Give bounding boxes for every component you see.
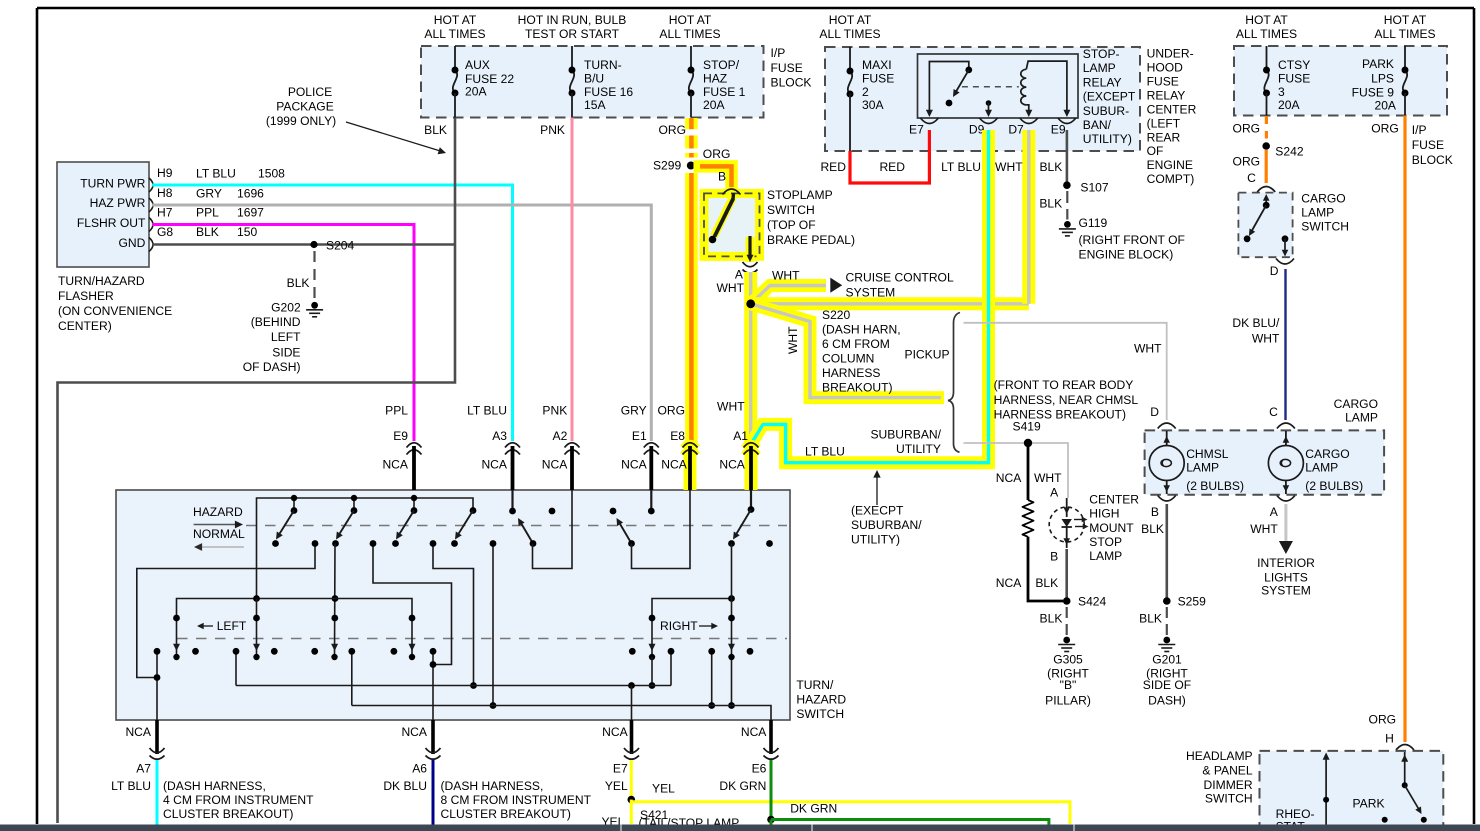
svg-text:PNK: PNK	[542, 404, 567, 418]
svg-text:LEFT: LEFT	[271, 330, 301, 344]
svg-text:NORMAL: NORMAL	[193, 527, 245, 541]
splice S107	[1063, 181, 1071, 189]
svg-text:B/U: B/U	[584, 72, 604, 86]
ground G202	[311, 302, 318, 309]
svg-text:LAMP: LAMP	[1301, 206, 1334, 220]
svg-text:A2: A2	[553, 429, 568, 443]
police package arrow	[346, 122, 442, 152]
svg-text:HOT AT: HOT AT	[1384, 13, 1427, 27]
svg-text:BLK: BLK	[196, 225, 219, 239]
svg-text:ORG: ORG	[657, 404, 685, 418]
svg-text:LT BLU: LT BLU	[111, 779, 151, 793]
svg-text:HAZARD: HAZARD	[796, 693, 846, 707]
svg-text:UTILITY): UTILITY)	[1083, 132, 1132, 146]
svg-text:NCA: NCA	[401, 725, 427, 739]
svg-text:(2 BULBS): (2 BULBS)	[1186, 479, 1244, 493]
svg-text:YEL: YEL	[652, 782, 675, 796]
svg-text:ORG: ORG	[658, 123, 686, 137]
rheostat arm	[1325, 754, 1327, 831]
svg-text:DK GRN: DK GRN	[790, 802, 837, 816]
svg-text:ALL TIMES: ALL TIMES	[819, 27, 880, 41]
wire LT BLU from flasher to A3	[152, 185, 513, 441]
hazard bank fixed contacts	[293, 498, 295, 511]
svg-text:(FRONT TO REAR BODY: (FRONT TO REAR BODY	[994, 378, 1134, 392]
contact 352 drop	[351, 651, 353, 705]
svg-text:C: C	[1247, 171, 1256, 185]
svg-text:GND: GND	[119, 236, 146, 250]
wire NCA black from S419 to resistor	[1027, 447, 1030, 500]
fixed dot right end	[766, 540, 773, 547]
svg-text:E6: E6	[752, 762, 767, 776]
svg-text:MAXI: MAXI	[862, 58, 892, 72]
svg-text:GRY: GRY	[196, 186, 222, 200]
relay STOP-LAMP outline	[918, 54, 1079, 118]
long rail y705 to E6	[352, 706, 771, 721]
svg-text:CARGO: CARGO	[1305, 447, 1349, 461]
svg-text:BLK: BLK	[1039, 196, 1062, 210]
svg-text:G201: G201	[1152, 653, 1182, 667]
svg-text:ALL TIMES: ALL TIMES	[1374, 27, 1435, 41]
dashed line turn bank	[177, 638, 787, 640]
blade A3 (up arrow)	[520, 521, 534, 544]
wire ORG ctsy fuse to S242 (dashed)	[1265, 116, 1268, 124]
svg-text:HEADLAMP: HEADLAMP	[1186, 749, 1253, 763]
svg-text:TURN/HAZARD: TURN/HAZARD	[58, 274, 145, 288]
wire BLK from AUX fuse down-left to bottom	[58, 118, 456, 824]
lamp CARGO	[1268, 446, 1303, 481]
cargo lamp switch box	[1238, 193, 1292, 258]
cargo lamp box	[1145, 430, 1385, 494]
svg-text:GRY: GRY	[621, 404, 647, 418]
splice S259	[1163, 597, 1171, 605]
svg-text:D: D	[1270, 264, 1279, 278]
svg-text:A: A	[1050, 486, 1059, 500]
wire YEL from E7	[630, 760, 633, 800]
svg-text:S259: S259	[1178, 594, 1207, 608]
wire BLK chmsl B to S259	[1166, 504, 1169, 601]
wire WHT thin brace to S419 to lamp A	[964, 443, 1069, 498]
svg-text:ENGINE BLOCK): ENGINE BLOCK)	[1079, 248, 1174, 262]
svg-text:UTILITY: UTILITY	[896, 442, 941, 456]
svg-text:ORG: ORG	[1233, 122, 1261, 136]
svg-text:(RIGHT FRONT OF: (RIGHT FRONT OF	[1079, 233, 1185, 247]
svg-text:A: A	[735, 268, 744, 282]
svg-text:H8: H8	[157, 186, 173, 200]
svg-text:CENTER: CENTER	[1147, 102, 1197, 116]
wire E8 into switch with link	[632, 490, 691, 569]
svg-text:ORG: ORG	[1371, 122, 1399, 136]
label (EXECPT SUBURBAN/UTILITY) with arrow	[876, 474, 878, 505]
svg-text:G8: G8	[157, 225, 173, 239]
underhood fuse relay center box	[825, 47, 1140, 151]
I/P fuse block (left)	[421, 46, 764, 118]
svg-text:A3: A3	[492, 429, 507, 443]
svg-text:150: 150	[237, 225, 257, 239]
contact 712 drop	[711, 651, 713, 705]
svg-text:HARNESS: HARNESS	[822, 366, 880, 380]
svg-text:NCA: NCA	[996, 471, 1022, 485]
wire NCA black resistor to S424	[1028, 537, 1063, 601]
svg-text:NCA: NCA	[741, 725, 767, 739]
svg-text:CARGO: CARGO	[1334, 397, 1378, 411]
I/P fuse block (right)	[1234, 46, 1447, 116]
svg-text:20A: 20A	[1278, 98, 1300, 112]
svg-text:(DASH HARNESS,: (DASH HARNESS,	[163, 779, 266, 793]
svg-text:BLK: BLK	[1035, 576, 1058, 590]
svg-text:D: D	[1150, 405, 1159, 419]
svg-text:ALL TIMES: ALL TIMES	[424, 27, 485, 41]
relay contact arm	[929, 62, 968, 112]
svg-text:S299: S299	[653, 158, 682, 172]
resistor	[1023, 500, 1034, 537]
svg-text:UTILITY): UTILITY)	[851, 533, 900, 547]
wire ORG highlighted from STOP/HAZ fuse to S299 (dashed)	[685, 118, 698, 129]
svg-text:BLOCK: BLOCK	[771, 76, 812, 90]
svg-text:S107: S107	[1080, 180, 1109, 194]
svg-text:WHT: WHT	[1134, 342, 1162, 356]
svg-text:(TOP OF: (TOP OF	[767, 218, 816, 232]
net contact 315 to A7 riser	[137, 544, 315, 678]
blade A1	[735, 510, 752, 538]
svg-text:S419: S419	[1013, 419, 1042, 433]
blade E1 (up arrow)	[618, 521, 632, 544]
svg-text:& PANEL: & PANEL	[1202, 763, 1252, 777]
svg-text:3: 3	[1278, 85, 1285, 99]
svg-text:A1: A1	[733, 429, 748, 443]
svg-text:LEFT: LEFT	[217, 619, 247, 633]
svg-text:NCA: NCA	[661, 457, 687, 471]
svg-text:FUSE: FUSE	[771, 61, 803, 75]
svg-text:A: A	[1270, 505, 1279, 519]
svg-text:SUBURBAN/: SUBURBAN/	[870, 428, 941, 442]
svg-text:I/P: I/P	[771, 46, 786, 60]
svg-text:SWITCH: SWITCH	[1301, 220, 1349, 234]
wire WHT highlighted to cruise control	[751, 286, 826, 304]
svg-text:UNDER-: UNDER-	[1147, 47, 1194, 61]
svg-text:FUSE 1: FUSE 1	[703, 85, 746, 99]
contact 433 to A6	[432, 651, 434, 720]
wire PNK from TURN-B/U fuse to A2	[571, 118, 574, 442]
svg-text:TURN/: TURN/	[796, 678, 834, 692]
svg-text:G119: G119	[1079, 216, 1108, 230]
svg-text:WHT: WHT	[1252, 332, 1280, 346]
headlamp & panel dimmer switch box	[1260, 751, 1444, 831]
svg-text:ORG: ORG	[1369, 713, 1397, 727]
bottom connector A6	[431, 720, 435, 754]
svg-text:A7: A7	[136, 762, 151, 776]
svg-text:6 CM FROM: 6 CM FROM	[822, 337, 890, 351]
ground G119	[1064, 221, 1071, 228]
svg-text:SIDE OF: SIDE OF	[1143, 678, 1191, 692]
svg-text:(ON CONVENIENCE: (ON CONVENIENCE	[58, 304, 172, 318]
svg-text:LIGHTS: LIGHTS	[1264, 571, 1308, 585]
svg-text:DIMMER: DIMMER	[1204, 778, 1253, 792]
ground G305	[1063, 637, 1070, 644]
svg-text:E8: E8	[670, 429, 685, 443]
svg-text:CTSY: CTSY	[1278, 58, 1310, 72]
svg-text:BLK: BLK	[1040, 611, 1063, 625]
svg-text:CHMSL: CHMSL	[1186, 447, 1229, 461]
wire PPL from flasher to E9	[152, 225, 414, 442]
wire A1 into switch	[750, 490, 752, 510]
svg-text:WHT: WHT	[716, 281, 744, 295]
svg-text:WHT: WHT	[717, 400, 745, 414]
svg-text:HOT AT: HOT AT	[829, 13, 872, 27]
net contact 493 long drop	[492, 544, 494, 706]
svg-text:E1: E1	[632, 429, 647, 443]
long rail y685	[236, 685, 671, 687]
svg-text:1697: 1697	[237, 205, 264, 219]
svg-text:15A: 15A	[584, 98, 606, 112]
fuse AUX FUSE 22 20A	[454, 46, 456, 70]
svg-text:CLUSTER BREAKOUT): CLUSTER BREAKOUT)	[441, 807, 571, 821]
svg-text:PILLAR): PILLAR)	[1045, 694, 1091, 708]
wire WHT highlighted stoplamp A down to junction and A1	[744, 272, 757, 452]
wire DK GRN from E6	[770, 760, 773, 820]
svg-text:FUSE: FUSE	[1278, 72, 1310, 86]
svg-text:BLK: BLK	[1141, 522, 1164, 536]
svg-text:BLK: BLK	[1139, 611, 1162, 625]
svg-text:REAR: REAR	[1147, 130, 1181, 144]
contact row dots	[192, 648, 199, 655]
svg-text:(DASH HARNESS,: (DASH HARNESS,	[441, 779, 544, 793]
svg-text:ALL TIMES: ALL TIMES	[1236, 27, 1297, 41]
wire LT BLU highlighted relay D9 down and left to A1	[751, 130, 989, 463]
svg-text:S424: S424	[1078, 594, 1107, 608]
svg-text:LAMP: LAMP	[1186, 461, 1219, 475]
svg-text:B: B	[718, 169, 726, 183]
svg-text:SUBURBAN/: SUBURBAN/	[851, 518, 922, 532]
ground G201	[1163, 637, 1170, 644]
svg-text:LT BLU: LT BLU	[941, 160, 981, 174]
stoplamp switch pin A lead	[746, 237, 755, 262]
svg-text:BLK: BLK	[1039, 160, 1062, 174]
blade feed 335 drop	[334, 544, 337, 658]
svg-text:H: H	[1385, 732, 1394, 746]
svg-text:STOP-: STOP-	[1083, 47, 1120, 61]
svg-text:FUSE 9: FUSE 9	[1352, 86, 1395, 100]
svg-text:SWITCH: SWITCH	[767, 203, 815, 217]
svg-text:C: C	[1269, 405, 1278, 419]
svg-text:(BEHIND: (BEHIND	[251, 315, 301, 329]
svg-text:20A: 20A	[465, 85, 487, 99]
svg-text:"B": "B"	[1060, 678, 1077, 692]
svg-text:BAN/: BAN/	[1083, 118, 1112, 132]
svg-text:20A: 20A	[1374, 99, 1396, 113]
svg-text:INTERIOR: INTERIOR	[1257, 556, 1315, 570]
wire BLK dashed to G119	[1066, 191, 1068, 220]
splice S424	[1063, 597, 1071, 605]
svg-text:LT BLU: LT BLU	[467, 404, 507, 418]
wire WHT thin from brace to lamp D	[964, 323, 1167, 420]
svg-text:G202: G202	[271, 301, 301, 315]
svg-text:SUBUR-: SUBUR-	[1083, 104, 1129, 118]
svg-text:HAZ: HAZ	[703, 72, 728, 86]
svg-text:TURN PWR: TURN PWR	[80, 177, 145, 191]
svg-text:NCA: NCA	[481, 457, 507, 471]
svg-text:BREAKOUT): BREAKOUT)	[822, 381, 893, 395]
bottom connector A7	[155, 720, 159, 754]
svg-text:YEL: YEL	[605, 779, 628, 793]
dashed line hazard bank	[246, 525, 787, 527]
wire BLK lamp B to S424	[1065, 549, 1068, 601]
contact 157 to A7	[156, 651, 158, 720]
hazard bank bus wire	[257, 498, 474, 599]
svg-text:1508: 1508	[258, 166, 285, 180]
svg-text:ORG: ORG	[1233, 155, 1261, 169]
svg-text:G305: G305	[1053, 653, 1083, 667]
svg-text:PACKAGE: PACKAGE	[276, 100, 334, 114]
svg-text:TURN-: TURN-	[584, 58, 622, 72]
svg-text:BLK: BLK	[424, 123, 447, 137]
svg-text:E9: E9	[393, 429, 408, 443]
wire ORG S242 to cargo switch C	[1265, 150, 1268, 183]
relay pin D9 stub	[986, 100, 992, 106]
svg-text:RELAY: RELAY	[1083, 75, 1122, 89]
wire RED maxi fuse to relay E7	[850, 130, 929, 183]
junction dot S220	[746, 299, 755, 308]
svg-text:RED: RED	[879, 160, 905, 174]
svg-text:HOT AT: HOT AT	[669, 13, 712, 27]
svg-text:CENTER): CENTER)	[58, 319, 112, 333]
wire GRY from flasher to E1	[152, 205, 651, 441]
flasher pin sockets	[149, 178, 153, 192]
svg-text:LT BLU: LT BLU	[196, 166, 236, 180]
svg-text:AUX: AUX	[465, 58, 490, 72]
svg-text:BLOCK: BLOCK	[1412, 153, 1453, 167]
svg-text:NCA: NCA	[719, 457, 745, 471]
fixed dot A2 bank	[549, 508, 556, 515]
svg-text:STOPLAMP: STOPLAMP	[767, 188, 833, 202]
svg-text:PARK: PARK	[1353, 797, 1385, 811]
svg-text:POLICE: POLICE	[288, 85, 332, 99]
svg-text:DK BLU: DK BLU	[383, 779, 427, 793]
svg-text:D7: D7	[1008, 123, 1024, 137]
wire WHT highlighted S220 branch	[751, 304, 944, 398]
svg-text:PPL: PPL	[385, 404, 408, 418]
svg-text:FLASHER: FLASHER	[58, 289, 114, 303]
svg-text:(LEFT: (LEFT	[1147, 116, 1181, 130]
wire DK BLU/WHT cargo switch D to cargo lamp C	[1284, 269, 1286, 420]
svg-text:WHT: WHT	[1250, 522, 1278, 536]
lamp connectors	[1158, 423, 1176, 429]
wire WHT cargo A to interior lights	[1284, 504, 1287, 541]
svg-text:HARNESS, NEAR CHMSL: HARNESS, NEAR CHMSL	[994, 393, 1139, 407]
svg-text:S204: S204	[326, 239, 355, 253]
wire E1 into switch	[650, 490, 652, 511]
wire WHT highlighted relay D7 down	[1022, 130, 1035, 304]
svg-text:LAMP: LAMP	[1089, 549, 1122, 563]
cruise control arrow	[830, 278, 842, 293]
A1 blade chain down	[731, 544, 733, 706]
svg-text:CARGO: CARGO	[1301, 192, 1345, 206]
svg-text:RED: RED	[820, 160, 846, 174]
svg-text:20A: 20A	[703, 98, 725, 112]
splice S419	[1024, 439, 1032, 447]
svg-text:FUSE: FUSE	[1147, 75, 1179, 89]
stoplamp switch pin A connector	[743, 262, 758, 267]
turn/hazard flasher box	[57, 162, 149, 267]
svg-text:COLUMN: COLUMN	[822, 352, 874, 366]
svg-text:CRUISE CONTROL: CRUISE CONTROL	[846, 271, 954, 285]
relay coil	[1021, 69, 1027, 105]
svg-text:STOP: STOP	[1089, 535, 1122, 549]
cargo lamp switch contacts	[1265, 196, 1267, 205]
splice S204	[310, 241, 317, 248]
svg-text:LPS: LPS	[1371, 72, 1394, 86]
svg-text:HIGH: HIGH	[1089, 507, 1119, 521]
svg-text:BLK: BLK	[287, 276, 310, 290]
turn bank left arrows	[256, 599, 258, 658]
svg-text:H7: H7	[157, 205, 173, 219]
svg-text:PPL: PPL	[196, 205, 219, 219]
svg-text:COMPT): COMPT)	[1147, 172, 1195, 186]
svg-text:FLSHR OUT: FLSHR OUT	[77, 216, 146, 230]
svg-text:RIGHT: RIGHT	[660, 619, 698, 633]
center high mount stop lamp (LED)	[1049, 507, 1084, 542]
svg-text:FUSE 16: FUSE 16	[584, 85, 633, 99]
splice S421 and yellow run	[628, 796, 636, 804]
svg-text:(EXCEPT: (EXCEPT	[1083, 90, 1136, 104]
wire BLK from flasher GND to splice	[152, 243, 455, 246]
svg-text:OF DASH): OF DASH)	[243, 360, 301, 374]
bottom connector E6	[769, 720, 773, 754]
wire BLK dashed to G202	[313, 251, 315, 299]
wire ORG park lps fuse to headlamp switch H	[1403, 116, 1406, 743]
svg-text:FUSE: FUSE	[1412, 138, 1444, 152]
net contact 433 to mid rail	[433, 544, 474, 686]
svg-text:PNK: PNK	[540, 123, 565, 137]
svg-text:STOP/: STOP/	[703, 58, 740, 72]
svg-text:NCA: NCA	[602, 725, 628, 739]
wire A3 into switch	[511, 490, 513, 511]
svg-text:DK GRN: DK GRN	[719, 779, 766, 793]
svg-text:HOT AT: HOT AT	[1245, 13, 1288, 27]
svg-text:I/P: I/P	[1412, 123, 1427, 137]
svg-text:2: 2	[862, 85, 869, 99]
svg-text:8 CM FROM INSTRUMENT: 8 CM FROM INSTRUMENT	[441, 793, 592, 807]
splice S299	[687, 161, 695, 169]
svg-text:4 CM FROM INSTRUMENT: 4 CM FROM INSTRUMENT	[163, 793, 314, 807]
splice S242	[1262, 142, 1270, 150]
fuse TURN-B/U FUSE 16 15A	[571, 46, 573, 70]
stoplamp switch box	[704, 193, 760, 256]
svg-text:CLUSTER BREAKOUT): CLUSTER BREAKOUT)	[163, 807, 293, 821]
svg-text:(EXECPT: (EXECPT	[851, 504, 904, 518]
lamp CHMSL	[1149, 446, 1184, 481]
svg-text:WHT: WHT	[772, 269, 800, 283]
fixed dot E1 bank	[610, 508, 617, 515]
svg-text:HOOD: HOOD	[1147, 61, 1184, 75]
svg-text:H9: H9	[157, 166, 173, 180]
svg-text:HAZ PWR: HAZ PWR	[90, 196, 146, 210]
svg-text:S220: S220	[822, 308, 851, 322]
svg-text:A6: A6	[412, 762, 427, 776]
svg-text:ENGINE: ENGINE	[1147, 158, 1193, 172]
stoplamp switch pin B connector	[723, 189, 741, 195]
svg-text:SYSTEM: SYSTEM	[1261, 584, 1311, 598]
net contact 373 to A6 riser	[373, 544, 452, 665]
svg-text:LAMP: LAMP	[1083, 61, 1116, 75]
svg-text:HAZARD: HAZARD	[193, 505, 243, 519]
svg-text:WHT: WHT	[1034, 471, 1062, 485]
svg-text:E9: E9	[1051, 123, 1066, 137]
svg-text:HOT AT: HOT AT	[434, 13, 477, 27]
turn bank left bus	[177, 599, 413, 658]
svg-text:30A: 30A	[862, 98, 884, 112]
svg-text:LAMP: LAMP	[1345, 411, 1378, 425]
bottom connector E7	[630, 720, 634, 754]
